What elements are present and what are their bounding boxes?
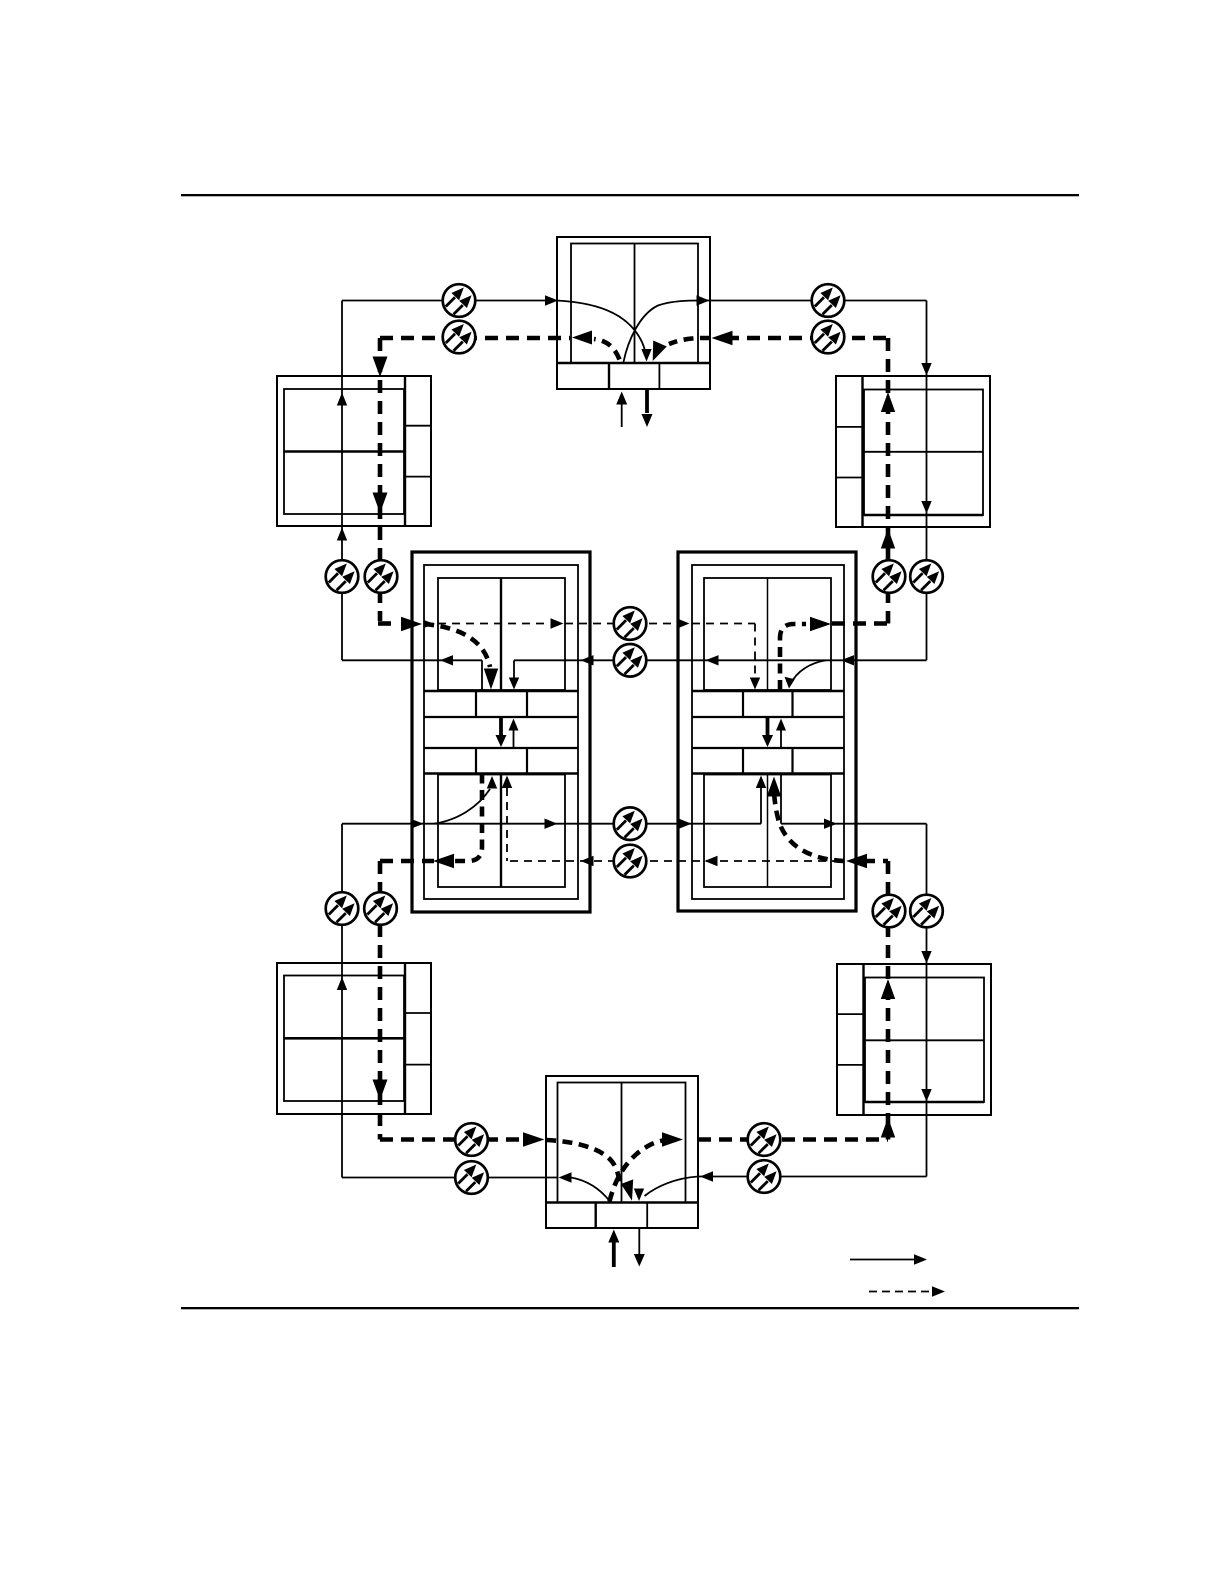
hub left upper row dividers: [475, 691, 477, 717]
legend dashed arrow: [869, 1291, 933, 1293]
wire drop curve left hub lower: [434, 789, 490, 824]
amplifier right lower dashed: [873, 895, 906, 928]
wire solid add curve top node: [624, 301, 701, 363]
arrow east at left-hub lower node east edge: [545, 819, 558, 829]
node upper-right regenerator outer box: [836, 376, 990, 527]
node upper-left inner box: [284, 389, 404, 514]
wire solid top-west span: [342, 300, 557, 302]
arrow west into left hub: [581, 655, 594, 665]
wire drop left hub upper: [513, 660, 515, 685]
big arrow down inside upper-left box: [373, 493, 388, 514]
big arrow down-left into top node row: [653, 341, 667, 362]
hub right outer box: [678, 552, 856, 911]
arrow up below upper-left box: [337, 528, 347, 541]
arrow down inside lower-right box: [921, 1089, 931, 1102]
wire dashed add right hub upper: [780, 624, 806, 690]
amplifier left lower solid: [326, 892, 359, 925]
big arrow west into right hub lower: [846, 854, 867, 868]
amplifier left upper dashed: [365, 560, 398, 593]
node lower-right inner divider: [865, 1039, 984, 1041]
wire solid right lower vertical: [926, 824, 928, 1177]
arrow small east inside left hub: [425, 620, 435, 628]
arrow east at left-hub node east edge: [551, 618, 564, 628]
hub left lower row top: [424, 747, 578, 749]
arrow west at right-hub node west edge: [706, 655, 719, 665]
arrow down thin below bottom node: [638, 1229, 640, 1255]
wire dashed drop curve top node: [669, 338, 710, 344]
hub right gap arrow up: [780, 730, 782, 748]
arrow west into right hub: [841, 655, 854, 665]
hub left gap arrow up: [513, 730, 515, 748]
hub left upper node box: [438, 578, 565, 690]
big arrow west add exit top node: [572, 331, 592, 345]
wire drop curve bottom node east: [645, 1177, 699, 1197]
node bottom ADM row divider left: [595, 1203, 597, 1229]
node lower-left column divider 2: [405, 1064, 431, 1066]
hub right upper row bottom: [692, 716, 844, 718]
arrow east at right-hub lower node east edge: [824, 819, 837, 829]
big arrow up inside upper-right box: [881, 392, 895, 412]
wire dashed out of left hub west: [380, 859, 434, 864]
big arrow up into right hub lower row: [767, 777, 781, 797]
wire thin dashed mid-upper through: [424, 623, 549, 625]
wire dashed drop curve right hub lower: [774, 790, 844, 861]
arrow down above upper-right box: [921, 363, 931, 376]
big arrow west out of left hub node: [433, 854, 454, 868]
node upper-left inner divider: [284, 450, 404, 453]
amplifier left lower dashed: [364, 892, 397, 925]
wire dashed left lower vertical: [378, 861, 383, 1140]
amplifier right lower solid: [910, 895, 943, 928]
hub right lower row bottom: [692, 772, 844, 775]
arrow down inside upper-right box: [921, 501, 931, 514]
node upper-right inner box: [864, 390, 983, 516]
wire dashed to right vertical: [832, 621, 888, 626]
arrow out of top node east: [697, 295, 710, 305]
amplifier top-left solid: [443, 284, 476, 317]
arrow east into right hub lower: [679, 819, 692, 829]
wire dashed drop curve bottom node: [546, 1140, 620, 1187]
amplifier center lower solid: [614, 807, 647, 840]
arrow up inside lower-left box: [337, 977, 347, 990]
amplifier top-left dashed: [443, 321, 476, 354]
wire add curve bottom node west: [571, 1178, 610, 1202]
wire solid bottom-east span: [698, 1176, 927, 1178]
hub left lower node center line: [500, 775, 502, 888]
amplifier center lower dashed: [614, 845, 647, 878]
hub left inner box: [424, 565, 578, 899]
amplifier bottom-right dashed: [748, 1123, 781, 1156]
wire solid mid-lower west line: [342, 823, 761, 825]
arrow down thick below top node: [645, 390, 649, 414]
wire dashed add curve bottom node: [610, 1140, 667, 1202]
arrow west at left-hub node edge: [440, 655, 453, 665]
amplifier bottom-left dashed: [455, 1123, 488, 1156]
node top ADM center line: [634, 244, 636, 364]
node lower-right inner box: [865, 978, 984, 1103]
node lower-right column divider 2: [837, 1064, 864, 1066]
node top ADM row top edge: [557, 362, 710, 365]
node upper-right column edge: [861, 376, 863, 527]
big arrow down into left hub upper row: [484, 669, 498, 690]
hub left lower node box: [438, 775, 565, 888]
hub left upper row top: [424, 690, 578, 693]
node top ADM row divider right: [658, 363, 660, 389]
wire thin dashed drop right hub upper: [754, 624, 756, 677]
wire dashed bottom-east span: [698, 1137, 888, 1142]
wire dashed add curve top node: [594, 339, 620, 360]
amplifier top-right dashed: [812, 321, 845, 354]
arrow up thin below top node: [621, 404, 623, 428]
wire solid top-east span: [700, 300, 927, 302]
wire solid left upper vertical: [341, 301, 343, 661]
amplifier center upper solid: [614, 644, 647, 677]
node upper-left column divider 2: [405, 476, 431, 478]
arrow west into left hub lower: [581, 856, 594, 866]
node upper-right column divider 2: [836, 477, 863, 479]
node top ADM outer box: [557, 237, 710, 389]
hub right inner box: [692, 565, 844, 899]
hub left lower row bottom: [424, 772, 578, 775]
node lower-left inner box: [284, 976, 404, 1102]
amplifier right upper solid: [910, 560, 943, 593]
arrow down solid drop top node: [641, 349, 651, 362]
amplifier top-right solid: [812, 284, 845, 317]
node lower-right column edge: [862, 964, 864, 1115]
hub right upper node center line: [767, 578, 769, 690]
node lower-right regenerator outer box: [837, 964, 991, 1115]
big arrow west into top node: [712, 331, 733, 345]
arrow up into left hub lower row: [502, 776, 512, 789]
wire add drop right hub lower east: [780, 774, 782, 824]
wire solid mid-lower east segment: [781, 823, 927, 825]
node bottom ADM outer box: [546, 1076, 698, 1228]
big arrow down into bottom node row: [621, 1179, 633, 1200]
node lower-left inner divider: [284, 1037, 404, 1040]
wire solid right upper vertical: [926, 301, 928, 661]
wire solid mid-upper east line: [514, 659, 927, 661]
node upper-left column edge: [404, 376, 406, 526]
arrow down into bottom node row: [634, 1189, 644, 1202]
node bottom ADM inner box: [558, 1083, 686, 1203]
arrow down into left hub upper row: [509, 678, 519, 690]
big arrow east into bottom node: [523, 1132, 544, 1146]
amplifier left upper solid: [326, 560, 359, 593]
wire drop curve right hub upper: [791, 660, 827, 684]
hub right lower row top: [692, 747, 844, 749]
arrow down above lower-right box: [921, 951, 931, 964]
wire dashed right upper vertical: [886, 338, 891, 624]
arrow up into right hub lower row: [756, 776, 766, 789]
hub right lower row dividers: [742, 748, 744, 774]
big arrow east into left hub: [401, 617, 422, 631]
arrow up into left hub lower row: [487, 776, 497, 789]
big arrow up inside lower-right box: [881, 979, 895, 999]
big arrow down at upper-left box top: [373, 357, 388, 378]
node upper-right column divider 1: [836, 426, 863, 428]
amplifier bottom-left solid: [455, 1161, 488, 1194]
wire add riser left hub upper: [481, 660, 483, 690]
wire solid mid-upper west segment: [342, 659, 482, 661]
node lower-left column divider 1: [405, 1012, 431, 1014]
big arrow east out of bottom node: [662, 1132, 683, 1146]
wire dashed into left hub: [378, 621, 398, 626]
node bottom ADM center line: [621, 1083, 623, 1203]
hub right gap arrow down: [766, 717, 770, 736]
wire dashed right lower vertical: [886, 861, 891, 1140]
amplifier right upper dashed: [873, 560, 906, 593]
big arrow up below lower-right box: [881, 1118, 895, 1138]
node top ADM row divider left: [608, 363, 610, 389]
wire thin dashed across gap: [565, 623, 676, 625]
top rule: [181, 194, 1079, 196]
hub right lower node box: [704, 775, 831, 888]
arrow east into right hub: [677, 618, 690, 628]
arrow west at bottom node east edge: [700, 1171, 713, 1181]
bottom rule: [181, 1307, 1079, 1309]
wire thin dashed mid-lower through: [510, 860, 836, 862]
arrow west at right-hub lower node west edge: [705, 856, 718, 866]
wire thin dashed inside right hub: [692, 623, 755, 625]
node bottom ADM row top edge: [546, 1201, 698, 1204]
arrow down into right hub upper row: [785, 677, 795, 689]
legend solid arrow: [850, 1259, 916, 1261]
hub left upper row bottom: [424, 716, 578, 718]
wire riser right hub lower west: [760, 780, 762, 824]
big arrow east out of right hub node: [810, 617, 831, 631]
wire dashed top-west span: [380, 336, 570, 341]
hub left outer box: [412, 552, 590, 912]
node lower-right column divider 1: [837, 1013, 864, 1015]
arrow up inside upper-left box: [337, 393, 347, 406]
big arrow down inside lower-left box: [373, 1080, 388, 1101]
wire dashed bottom-west span: [380, 1137, 522, 1142]
arrow up thick below bottom node: [612, 1242, 616, 1267]
node lower-left column edge: [404, 963, 406, 1114]
hub left upper node center line: [500, 578, 502, 690]
wire dashed left upper vertical: [378, 338, 383, 621]
amplifier bottom-right solid: [748, 1160, 781, 1193]
hub left lower row dividers: [475, 748, 477, 774]
hub right upper row dividers: [742, 691, 744, 717]
node top ADM inner box: [571, 244, 698, 364]
arrow down into right hub upper row: [750, 678, 760, 690]
wire dashed top-east span: [726, 336, 888, 341]
wire solid bottom-west span: [342, 1177, 557, 1179]
arrow east into left hub lower: [412, 819, 424, 828]
wire dashed drop curve left hub upper: [424, 624, 490, 667]
node upper-left regenerator outer box: [277, 376, 431, 526]
node bottom ADM row divider right: [646, 1203, 648, 1229]
hub left gap arrow down: [499, 717, 503, 736]
arrow west at bottom node west edge: [559, 1172, 572, 1182]
hub right upper node box: [704, 578, 831, 690]
wire solid left lower vertical: [341, 824, 343, 1178]
wire solid drop curve top node: [557, 301, 647, 358]
big arrow up below upper-right box: [881, 529, 895, 549]
node upper-left column divider 1: [405, 425, 431, 427]
wire thin dashed riser left hub lower: [506, 788, 508, 861]
amplifier center upper dashed: [614, 607, 647, 640]
node upper-right inner divider: [864, 451, 983, 453]
wire dashed into right hub lower: [862, 859, 888, 864]
hub right upper row top: [692, 690, 844, 693]
node lower-left regenerator outer box: [277, 963, 431, 1114]
hub right lower node center line: [767, 775, 769, 888]
wire dashed add left hub lower: [452, 774, 482, 862]
arrow into top node west: [545, 295, 558, 305]
